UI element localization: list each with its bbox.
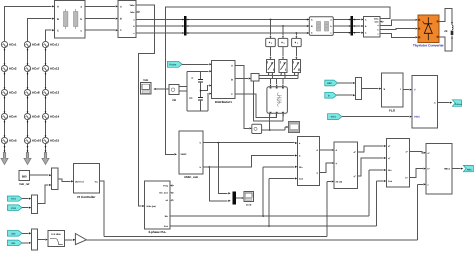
branch Sin to abc-dq bbox=[262, 166, 297, 217]
svg-text:Ith2: Ith2 bbox=[11, 233, 16, 236]
svg-text:HBC1: HBC1 bbox=[444, 168, 451, 171]
svg-text:wt: wt bbox=[166, 199, 169, 202]
ground bbox=[1, 144, 8, 165]
svg-text:ACs13: ACs13 bbox=[50, 91, 60, 95]
wire mux MB up to mux MA bbox=[38, 184, 52, 204]
wire bbox=[4, 72, 6, 90]
Distributor1 block bbox=[212, 61, 236, 105]
svg-text:Vabc: Vabc bbox=[129, 4, 135, 7]
AC voltage source ACs10 bbox=[24, 137, 41, 143]
svg-text:ACs7: ACs7 bbox=[32, 67, 40, 71]
svg-text:q*: q* bbox=[354, 175, 356, 178]
svg-text:C: C bbox=[192, 77, 194, 80]
wire bbox=[22, 198, 31, 200]
wire bbox=[296, 47, 298, 60]
wire PLL Sin bbox=[170, 169, 386, 216]
wire DC loop bbox=[439, 8, 453, 51]
current sensor i3 bbox=[292, 38, 302, 46]
Vabc_calc block bbox=[179, 131, 203, 179]
wires T2 to bus2 to VI2 bbox=[333, 18, 363, 20]
wire bbox=[22, 232, 31, 234]
svg-text:Pulses: Pulses bbox=[455, 103, 463, 106]
From tag HBC bbox=[325, 80, 338, 86]
wire PI output down bbox=[99, 181, 104, 237]
AC voltage source ACs1 bbox=[1, 41, 17, 47]
AC voltage source ACs15 bbox=[42, 137, 59, 143]
svg-text:990: 990 bbox=[22, 174, 27, 178]
svg-text:d*: d* bbox=[354, 151, 356, 154]
svg-text:ACs2: ACs2 bbox=[9, 67, 17, 71]
V-I measurement block VI1 bbox=[118, 1, 136, 38]
svg-text:HBC: HBC bbox=[327, 82, 332, 85]
wire FLO to pulse generator bbox=[403, 89, 412, 91]
wire filter to gain bbox=[64, 239, 75, 241]
wire bbox=[45, 48, 47, 66]
wire Distributor C to bridge port2 bbox=[235, 94, 277, 118]
capacitor network bbox=[187, 71, 209, 111]
wire bbox=[282, 47, 284, 60]
3-phase PLL block bbox=[145, 181, 174, 234]
AC voltage source ACs6 bbox=[24, 41, 40, 47]
wires VI2 to thyristor converter bbox=[380, 19, 418, 25]
gain block bbox=[75, 234, 86, 245]
wire bbox=[22, 207, 31, 209]
svg-text:a*: a* bbox=[428, 152, 430, 155]
AC voltage source ACs9 bbox=[24, 113, 40, 119]
wire col2 to transformer B bbox=[28, 18, 55, 42]
svg-text:Vth1: Vth1 bbox=[331, 116, 337, 119]
meter block bbox=[252, 124, 262, 133]
wire bbox=[27, 96, 29, 114]
wire Distributor B to gate driver bbox=[235, 77, 251, 79]
svg-text:Iabc: Iabc bbox=[130, 11, 135, 14]
low-pass filter block bbox=[48, 231, 65, 247]
wire gate stubs bbox=[280, 73, 285, 79]
wire bbox=[276, 78, 278, 87]
svg-text:3-phase PLL: 3-phase PLL bbox=[148, 230, 166, 234]
three-phase transformer T2 bbox=[309, 17, 333, 36]
svg-text:b*: b* bbox=[406, 177, 408, 180]
dq regulator block bbox=[334, 142, 358, 189]
wire bbox=[270, 47, 272, 60]
svg-text:Freq: Freq bbox=[163, 184, 168, 187]
svg-text:B: B bbox=[120, 18, 122, 21]
svg-text:a*: a* bbox=[406, 151, 408, 154]
wire to Goto HBC bbox=[452, 168, 463, 170]
svg-text:VAbc (pu): VAbc (pu) bbox=[146, 205, 156, 208]
wire bbox=[85, 5, 118, 7]
svg-text:C1: C1 bbox=[189, 97, 193, 100]
wire bbox=[282, 78, 284, 87]
tap to mux scope 2 bbox=[208, 166, 230, 202]
wire bbox=[45, 96, 47, 114]
constant Vdc_ref bbox=[19, 170, 29, 186]
bridge block U1 bbox=[267, 87, 288, 114]
AC voltage source ACs12 bbox=[42, 65, 59, 71]
svg-text:b*: b* bbox=[428, 168, 430, 171]
svg-text:Thyristor Converter: Thyristor Converter bbox=[413, 44, 444, 48]
wire phase c bbox=[136, 32, 309, 34]
AC voltage source ACs2 bbox=[1, 65, 17, 71]
svg-text:Distributor1: Distributor1 bbox=[215, 100, 232, 104]
PI Controller block bbox=[74, 164, 100, 199]
switch SW1 bbox=[267, 60, 275, 73]
wire q bbox=[320, 162, 334, 173]
svg-text:ACs6: ACs6 bbox=[32, 43, 40, 47]
svg-text:F=4 10Hz: F=4 10Hz bbox=[51, 233, 61, 236]
From tag Vth1b bbox=[7, 196, 22, 201]
wire bridge port1 down bbox=[269, 113, 271, 130]
wire VM to scope bbox=[153, 88, 169, 90]
wire VI1.Vabc to PLL bbox=[136, 5, 155, 206]
bridge bottom port bbox=[276, 113, 278, 115]
wire PLL Cos bbox=[170, 180, 386, 226]
bridge bottom port bbox=[269, 113, 271, 115]
svg-text:ACs14: ACs14 bbox=[50, 115, 60, 119]
AC voltage source ACs11 bbox=[42, 41, 59, 47]
AC voltage source ACs8 bbox=[24, 89, 40, 95]
AC voltage source ACs14 bbox=[42, 113, 59, 119]
tap node phase a bbox=[270, 19, 272, 39]
wire Vabc_calc out1 bbox=[203, 142, 297, 144]
svg-text:A: A bbox=[57, 6, 59, 9]
wire d* bbox=[358, 145, 387, 152]
svg-text:C: C bbox=[57, 29, 59, 32]
wire gate driver to bridge port3 bbox=[253, 81, 283, 121]
svg-text:C: C bbox=[231, 93, 233, 96]
svg-text:Sin_Cos: Sin_Cos bbox=[159, 192, 169, 195]
svg-text:Vd01: Vd01 bbox=[414, 116, 420, 119]
bridge bottom port bbox=[282, 113, 284, 115]
svg-text:PI Controller: PI Controller bbox=[77, 195, 96, 199]
svg-text:Zd: Zd bbox=[444, 30, 448, 33]
wire bbox=[342, 116, 412, 118]
AC voltage source ACs4 bbox=[1, 113, 17, 119]
switch SW2 bbox=[279, 60, 287, 73]
svg-text:ACs10: ACs10 bbox=[32, 139, 42, 143]
tap node phase c bbox=[296, 32, 298, 38]
scope Va Ia bbox=[244, 191, 253, 206]
Goto tag HBC bbox=[463, 165, 473, 171]
wire gate stubs bbox=[268, 73, 273, 79]
wire b* bbox=[410, 168, 426, 178]
From tag Ith1 bbox=[7, 240, 22, 246]
From tag Pulse bbox=[167, 61, 182, 67]
wire bbox=[45, 120, 47, 138]
wire bbox=[4, 96, 6, 114]
wire mux to FLO bbox=[362, 88, 382, 90]
ground bbox=[24, 144, 31, 165]
svg-text:B: B bbox=[231, 78, 233, 81]
wire bbox=[29, 174, 51, 176]
svg-text:C: C bbox=[120, 29, 122, 32]
wire bbox=[337, 94, 356, 96]
svg-text:Pulse: Pulse bbox=[169, 64, 176, 67]
Goto tag Pulses bbox=[452, 100, 462, 107]
wire bbox=[270, 78, 272, 87]
wire bbox=[85, 18, 118, 20]
wire gate stubs bbox=[294, 73, 299, 79]
tap to mux scope 1 bbox=[217, 142, 230, 195]
svg-text:FLO: FLO bbox=[389, 109, 396, 113]
three-phase transformer T1 bbox=[55, 1, 86, 39]
svg-text:B: B bbox=[57, 18, 59, 21]
wire mux MC to filter bbox=[38, 239, 48, 241]
wire gain to pulse block bbox=[86, 183, 426, 240]
svg-text:ACs11: ACs11 bbox=[50, 43, 60, 47]
mux M2 bbox=[355, 78, 361, 100]
wire a* bbox=[410, 152, 426, 154]
current sensor i2 bbox=[278, 38, 288, 46]
wire PI to dq regulator bbox=[104, 180, 334, 236]
mux MA bbox=[52, 168, 58, 189]
wire VI2.Vabc to Vabc_calc bbox=[166, 7, 390, 154]
wire bbox=[4, 120, 6, 138]
wire Pulse to Distributor1 bbox=[182, 63, 212, 65]
AC voltage source ACs13 bbox=[42, 89, 59, 95]
svg-text:ACs15: ACs15 bbox=[50, 139, 60, 143]
From tag Vth1 bbox=[328, 114, 342, 120]
abc to dq block bbox=[297, 136, 319, 185]
svg-text:ACs4: ACs4 bbox=[9, 115, 17, 119]
series RLC branch Zd bbox=[444, 25, 453, 35]
thyristor converter block bbox=[413, 15, 444, 47]
bus bar B2 bbox=[351, 16, 354, 36]
wire Distributor A to meter bbox=[235, 65, 252, 129]
svg-text:VM: VM bbox=[172, 99, 176, 102]
switch SW3 bbox=[292, 60, 300, 73]
wire pulse generator to Goto Pulses bbox=[438, 102, 453, 104]
svg-text:ACs12: ACs12 bbox=[50, 67, 60, 71]
svg-text:ACs1: ACs1 bbox=[9, 43, 17, 47]
wire gate rail 2 bbox=[259, 77, 298, 79]
wire Vabc_calc out2 bbox=[203, 154, 297, 167]
wire phase a bbox=[136, 18, 309, 20]
svg-text:ACs8: ACs8 bbox=[32, 91, 40, 95]
AC voltage source ACs5 bbox=[1, 137, 17, 143]
AC voltage source ACs3 bbox=[1, 89, 17, 95]
svg-text:dhref_Id: dhref_Id bbox=[75, 180, 84, 183]
wire bbox=[27, 120, 29, 138]
svg-text:ACs9: ACs9 bbox=[32, 115, 40, 119]
wire bbox=[27, 72, 29, 90]
svg-text:ACs5: ACs5 bbox=[9, 139, 17, 143]
svg-text:d*: d* bbox=[388, 145, 390, 148]
svg-text:q*: q* bbox=[388, 157, 390, 160]
dq to abc block bbox=[386, 138, 409, 187]
scope Vdc bbox=[141, 78, 152, 94]
wire bbox=[27, 48, 29, 66]
svg-text:VABC_calc: VABC_calc bbox=[184, 176, 199, 179]
svg-text:ua ib: ua ib bbox=[246, 203, 252, 206]
wire q* bbox=[358, 157, 387, 176]
svg-text:Vdc_ref: Vdc_ref bbox=[19, 182, 29, 186]
svg-text:VABC: VABC bbox=[181, 153, 187, 156]
svg-text:Vth2: Vth2 bbox=[11, 207, 17, 210]
wire gate rail 1 bbox=[259, 75, 298, 77]
svg-text:HBC: HBC bbox=[467, 169, 472, 172]
pulse shaping block bbox=[426, 143, 452, 194]
wire col1 to transformer A bbox=[5, 5, 55, 41]
pulse generator block bbox=[412, 75, 438, 128]
branch Cos to abc-dq bbox=[268, 177, 297, 226]
wire mux MD to scope bbox=[236, 197, 244, 199]
wire bbox=[45, 72, 47, 90]
current sensor i1 bbox=[266, 38, 276, 46]
wire d bbox=[320, 149, 334, 151]
unconnected VI2.Iabc stub bbox=[380, 21, 384, 23]
voltage measurement VM bbox=[169, 85, 187, 102]
unconnected Iabc port stub bbox=[136, 11, 140, 13]
mux MB bbox=[31, 195, 37, 213]
ground bbox=[42, 144, 49, 165]
wire phase b bbox=[136, 25, 309, 27]
svg-text:ACs3: ACs3 bbox=[9, 91, 17, 95]
wire col3 to transformer C bbox=[46, 29, 55, 41]
wire bbox=[4, 48, 6, 66]
bus bar B1 bbox=[184, 16, 187, 36]
wire caps to Distributor1 inputs bbox=[200, 70, 212, 111]
From tag Ith2 bbox=[7, 231, 22, 237]
mux MC bbox=[31, 229, 37, 250]
From tag In bbox=[325, 92, 337, 98]
display block bbox=[289, 121, 300, 132]
svg-text:d0 s4b: d0 s4b bbox=[336, 181, 343, 184]
svg-text:A: A bbox=[231, 64, 233, 67]
AC voltage source ACs7 bbox=[24, 65, 40, 71]
wire bbox=[85, 29, 118, 31]
mux MD (black) bbox=[233, 191, 236, 204]
svg-text:Vdc: Vdc bbox=[143, 78, 149, 82]
wire bbox=[22, 242, 31, 244]
svg-text:Vth1: Vth1 bbox=[11, 198, 17, 201]
gate driver block bbox=[251, 74, 259, 82]
V-I measurement block VI2 bbox=[364, 16, 380, 37]
wire bbox=[338, 82, 356, 84]
wire mux MA to PI bbox=[58, 179, 74, 183]
svg-text:Ith1: Ith1 bbox=[11, 242, 16, 245]
wire meter to display bbox=[262, 126, 289, 131]
tap node phase b bbox=[282, 25, 284, 38]
From tag Vth2 bbox=[7, 205, 22, 211]
svg-text:A: A bbox=[120, 6, 122, 9]
FLO block bbox=[382, 73, 403, 112]
